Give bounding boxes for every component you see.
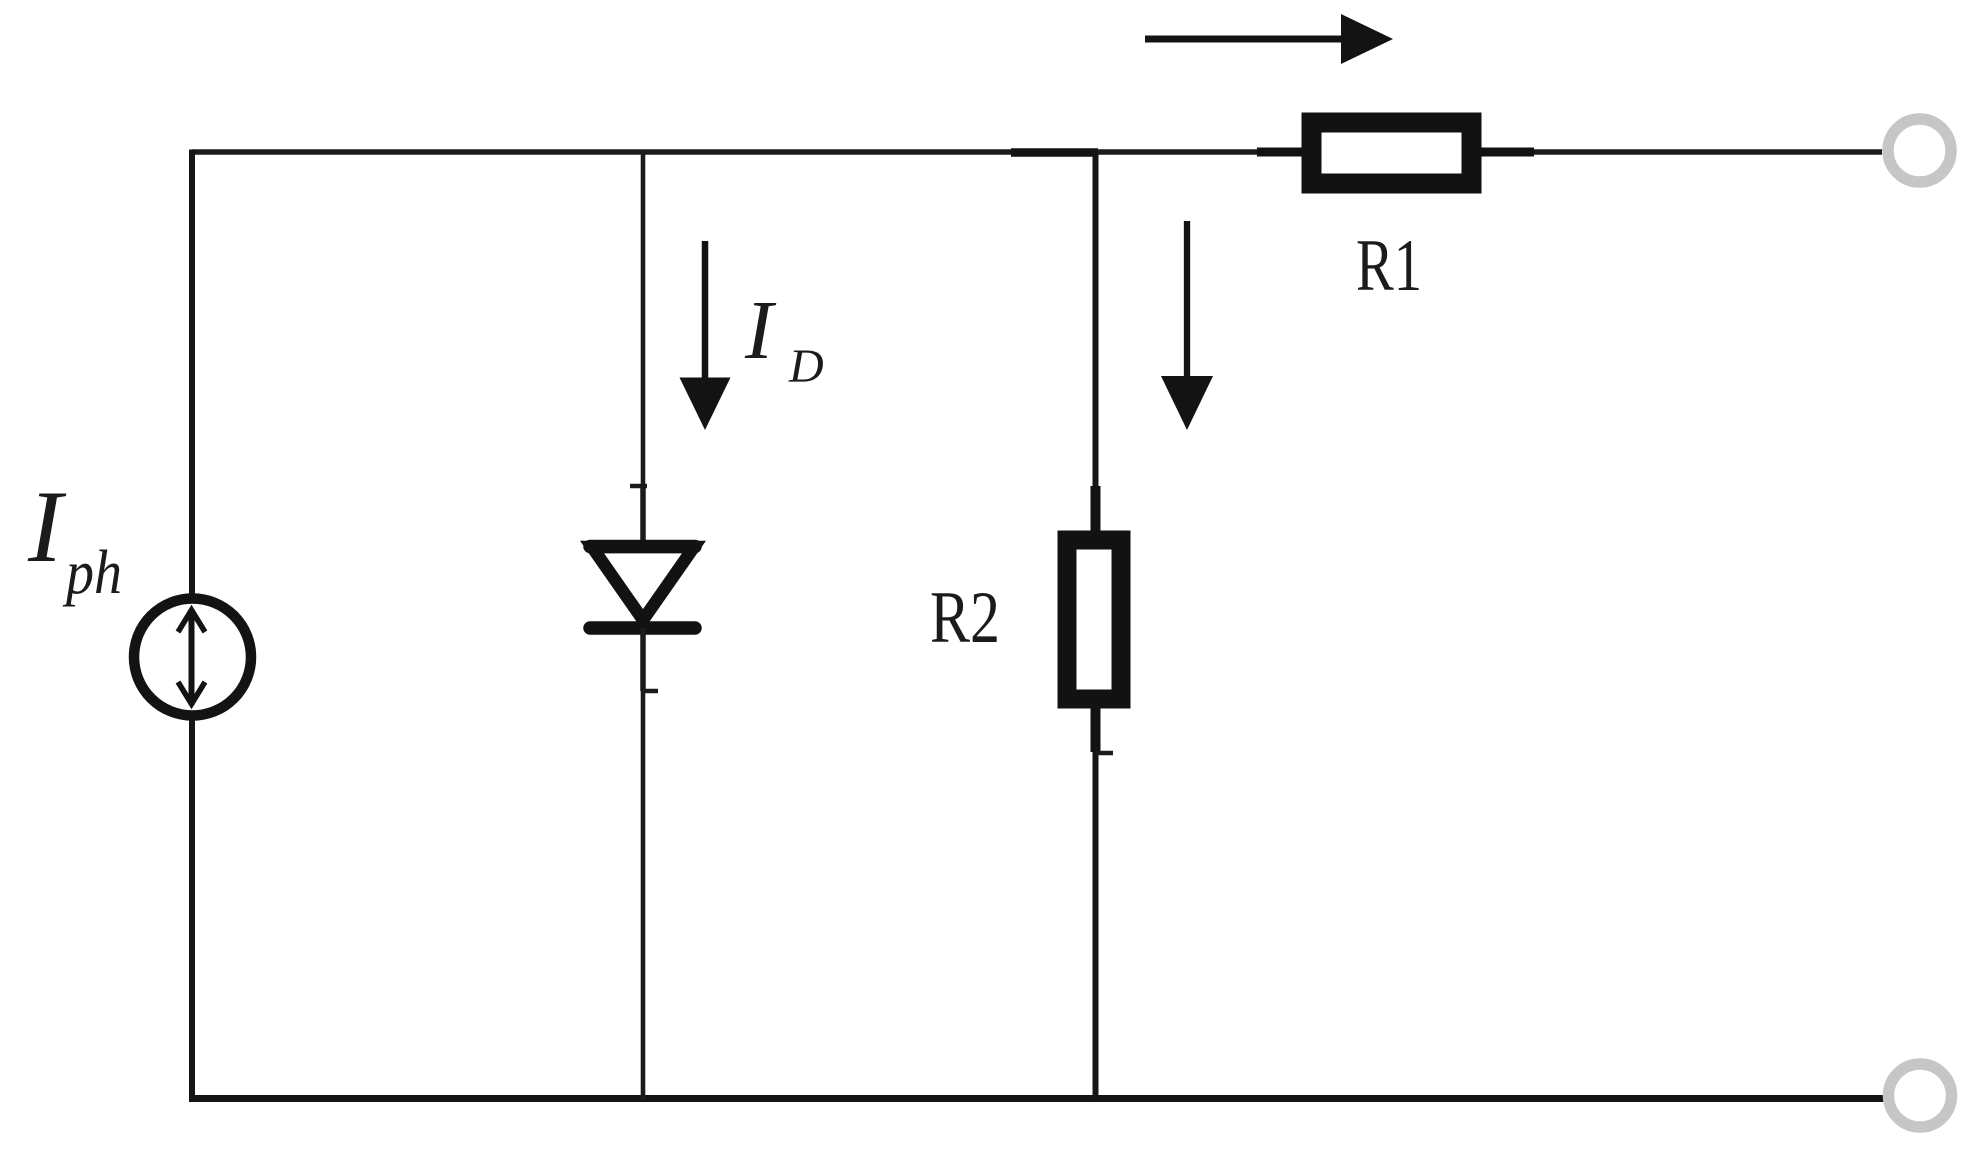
resistor R1 right lead [1478,148,1534,157]
svg-text:R2: R2 [930,577,1000,659]
current source arrow head down [178,682,205,704]
svg-text:R1: R1 [1356,225,1422,307]
R2 current arrow [1184,221,1190,382]
diode D anode bar [590,540,695,554]
wire R2 branch [1093,152,1099,1100]
wire top bus [192,149,1882,155]
current direction arrow above R1 [1145,36,1348,43]
resistor R2 thick lead below [1091,707,1101,752]
wire diode branch [641,152,646,1100]
svg-text:D: D [788,340,824,393]
current source arrow head up [178,610,205,632]
resistor R1 body [1312,123,1472,184]
resistor R2 tick below lead [1096,751,1113,756]
diode D triangle [592,547,694,620]
diode D cathode bar [590,621,695,635]
current source Iph circle [134,599,251,716]
svg-text:I: I [27,470,67,584]
diode D tick above anode [630,484,647,489]
diode D lead below [640,628,646,691]
wire thick top segment before R2 junction [1011,148,1098,157]
terminal top right [1888,119,1951,182]
resistor R2 thick lead above [1091,486,1101,532]
wire left branch [189,150,195,1101]
diode D tick below cathode [643,689,658,694]
diode current arrow ID [702,241,709,384]
terminal bottom right [1889,1064,1952,1127]
svg-text:ph: ph [62,539,122,607]
wire bottom bus [189,1095,1884,1102]
resistor R1 left lead [1257,148,1315,157]
diode D lead above [640,486,646,546]
resistor R2 body [1067,540,1121,699]
svg-text:I: I [744,284,777,377]
current source arrow shaft [189,609,195,705]
